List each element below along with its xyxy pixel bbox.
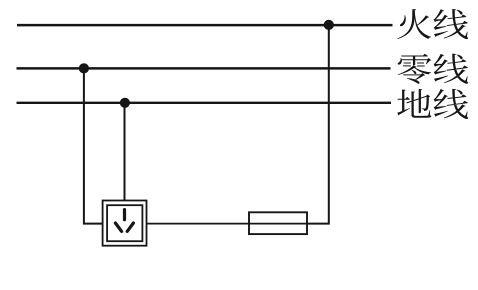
socket XS earth pin (center vertical)	[123, 210, 126, 220]
junction dot on neutral bus	[79, 63, 89, 73]
net label 零线	[398, 54, 468, 84]
wire neutral bus N (middle horizontal)	[17, 67, 391, 69]
wire through fuse	[249, 223, 307, 225]
wire live bus L (top horizontal)	[17, 24, 393, 26]
socket XS left pin (diagonal)	[115, 223, 121, 231]
net label 火线	[397, 9, 468, 39]
wire neutral drop to socket left	[84, 68, 103, 223]
junction dot on live bus	[324, 20, 334, 30]
wire earth bus E (bottom horizontal)	[17, 102, 392, 104]
wire fuse right up to live bus	[307, 25, 329, 224]
junction dot on earth bus	[120, 98, 130, 108]
wire earth drop to socket top	[124, 103, 126, 201]
wire socket right to fuse left	[147, 223, 250, 225]
net label 地线	[397, 89, 468, 119]
socket XS outer box	[103, 201, 147, 246]
socket XS right pin (diagonal)	[127, 223, 133, 231]
socket XS inner box	[107, 205, 142, 241]
fuse FU body	[249, 212, 307, 234]
